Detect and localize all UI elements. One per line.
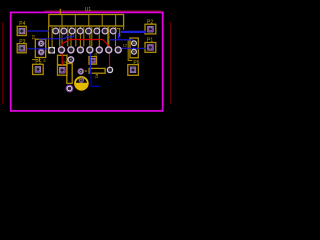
svg-text:P3: P3 [19,39,25,45]
svg-text:U1: U1 [85,7,92,13]
svg-text:12: 12 [123,42,128,47]
svg-text:P6: P6 [133,60,139,66]
svg-text:R1: R1 [95,74,100,80]
svg-text:D1: D1 [80,75,86,80]
svg-text:P5: P5 [35,59,41,65]
svg-text:P1: P1 [147,38,153,44]
svg-text:P2: P2 [147,19,153,25]
svg-text:24: 24 [63,59,68,64]
svg-text:P4: P4 [19,21,25,27]
svg-text:D1: D1 [31,35,36,41]
